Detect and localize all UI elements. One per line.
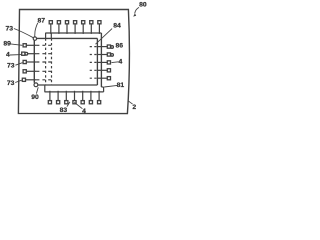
left pad 1 — [23, 44, 26, 47]
right pad 2 — [107, 53, 110, 56]
right pad 1 hidden trace — [90, 46, 98, 48]
bottom bus left turn-up — [44, 85, 46, 92]
right pad 2 hidden trace — [90, 54, 98, 56]
left pad 3 — [23, 60, 26, 63]
left pad 3 stem — [26, 61, 36, 63]
leader 2 — [128, 101, 133, 104]
svg-text:4: 4 — [6, 51, 10, 58]
bottom pad 6 — [89, 101, 92, 104]
right pad 5 stem — [97, 77, 107, 79]
svg-text:83: 83 — [60, 107, 68, 114]
top pad 1 stem — [50, 24, 52, 34]
hidden conductor dashed vertical 1 — [45, 38, 47, 85]
via circle bottom-left — [34, 83, 38, 87]
top pad 1 — [49, 21, 52, 24]
left pad 1 hidden trace — [37, 44, 53, 46]
svg-text:86: 86 — [116, 43, 124, 50]
hidden conductor dashed vertical 2 — [51, 38, 53, 85]
package body left edge — [33, 41, 35, 83]
left pad 2 — [22, 52, 25, 55]
left pad 4 — [23, 70, 26, 73]
package body bottom edge — [38, 84, 97, 86]
top pad 3 stem — [66, 24, 68, 34]
right pad 5 — [107, 77, 110, 80]
bottom pad 7 stem — [98, 91, 100, 101]
svg-text:4: 4 — [82, 108, 86, 115]
bottom pad 3 — [65, 101, 68, 104]
svg-text:87: 87 — [38, 17, 46, 24]
bottom pad 2 stem — [57, 91, 59, 101]
svg-text:73: 73 — [7, 80, 15, 87]
top pad 7 — [98, 21, 101, 24]
leader 73 low — [15, 80, 22, 82]
right pad 1 stem — [97, 46, 107, 48]
right pad 3 hidden trace — [90, 61, 98, 63]
leader 73 mid — [15, 63, 22, 65]
right pad 3 stem — [97, 61, 107, 63]
left pad 1 stem — [26, 44, 36, 46]
svg-text:90: 90 — [31, 94, 39, 101]
leader 87 — [35, 23, 38, 37]
svg-text:4: 4 — [119, 59, 123, 66]
top pad 6 — [90, 21, 93, 24]
leader 81 — [104, 85, 117, 87]
bottom pad 3 stem — [65, 91, 67, 101]
svg-text:84: 84 — [113, 23, 121, 30]
top pad 7 stem — [98, 24, 100, 34]
bottom pad 4 — [73, 101, 76, 104]
right pad 2 via circle — [111, 54, 114, 57]
package body top edge — [37, 37, 98, 39]
top pad 2 stem — [58, 24, 60, 34]
left pad 5 stem — [25, 79, 36, 81]
bottom pad 5 — [81, 101, 84, 104]
left pad 2 stem — [26, 53, 36, 55]
svg-text:89: 89 — [3, 41, 11, 48]
top pad 4 stem — [74, 24, 76, 34]
leader 73 top — [14, 29, 33, 38]
bottom pad 1 — [48, 101, 51, 104]
right pad 1 — [107, 45, 110, 48]
left pad 3 hidden trace — [37, 61, 53, 63]
top pad 6 stem — [90, 24, 92, 34]
leader 4 left — [10, 54, 21, 56]
svg-text:2: 2 — [132, 104, 136, 111]
bottom pad 4 stem — [74, 91, 76, 101]
right pad 4 stem — [97, 69, 107, 71]
right pad 5 hidden trace — [90, 77, 98, 79]
right pad 3 — [107, 61, 110, 64]
top bus — [45, 32, 101, 34]
top pad 1 feed-through to hidden conductor — [50, 33, 52, 38]
right bus — [100, 33, 102, 87]
board outline 80/2 — [18, 9, 129, 113]
top pad 5 — [82, 21, 85, 24]
bottom bus — [45, 91, 104, 93]
bottom pad 1 stem — [49, 91, 51, 101]
leader 84 — [96, 29, 113, 45]
leader 90 — [36, 87, 38, 93]
via circle top-left — [33, 37, 36, 40]
top bus left turn-down — [45, 33, 47, 38]
svg-text:73: 73 — [7, 63, 15, 70]
leader 80 — [135, 7, 139, 13]
right pad 2 stem — [97, 54, 107, 56]
leader 89 — [10, 44, 22, 45]
svg-text:73: 73 — [6, 25, 14, 32]
left pad 4 hidden trace — [37, 70, 53, 72]
svg-text:80: 80 — [139, 1, 147, 8]
bottom bus right turn-up — [103, 87, 105, 92]
top pad 2 — [57, 21, 60, 24]
right pad 4 hidden trace — [90, 69, 98, 71]
leader 4 right — [112, 61, 119, 64]
leader 4 bottom — [74, 102, 82, 108]
bottom pad 6 stem — [90, 91, 92, 101]
svg-text:81: 81 — [117, 82, 125, 89]
package body right edge — [96, 38, 98, 85]
left pad 2 hidden trace — [37, 53, 53, 55]
bottom pad 5 stem — [82, 91, 84, 101]
bottom pad 7 — [98, 101, 101, 104]
left pad 5 hidden trace — [37, 79, 53, 81]
top pad 3 — [65, 21, 68, 24]
leader 83 — [67, 102, 70, 107]
top pad 4 — [74, 21, 77, 24]
left pad 5 — [22, 78, 25, 81]
bottom pad 2 — [57, 101, 60, 104]
right pad 1 via circle — [111, 46, 114, 49]
right pad 4 — [107, 69, 110, 72]
left pad 4 stem — [26, 70, 36, 72]
joint right bus to bottom bus — [101, 86, 103, 88]
top pad 5 stem — [82, 24, 84, 34]
arrowhead 80 — [133, 13, 136, 16]
